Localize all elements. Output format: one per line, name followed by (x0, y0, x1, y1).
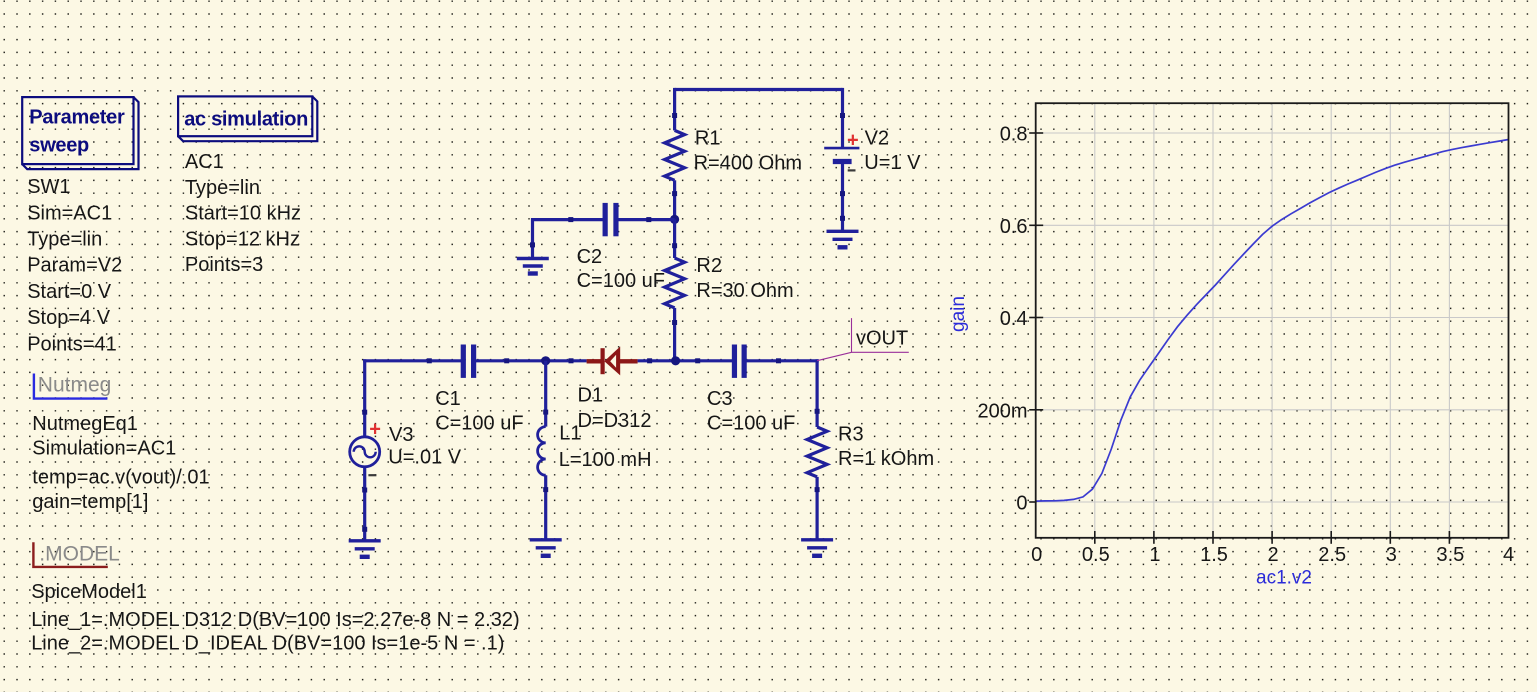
wire R2 bottom to main wire (673, 308, 676, 361)
SW1 properties (27, 176, 122, 355)
pin squares V2 (840, 113, 845, 118)
wire C3 right to R3 corner (744, 359, 819, 362)
svg-text:vOUT: vOUT (856, 328, 908, 350)
svg-text:D1: D1 (578, 384, 604, 406)
svg-text:V3: V3 (389, 424, 413, 446)
svg-text:Type=lin: Type=lin (185, 177, 260, 199)
svg-text:C=100 uF: C=100 uF (707, 413, 795, 435)
wire R2 top stub (673, 219, 676, 258)
svg-text:Points=3: Points=3 (185, 254, 263, 276)
svg-text:D=D312: D=D312 (578, 410, 652, 432)
svg-text:0.4: 0.4 (1000, 308, 1028, 330)
svg-text:1.5: 1.5 (1200, 544, 1228, 566)
svg-text:4: 4 (1503, 544, 1514, 566)
voltage source V3 ac (350, 418, 462, 475)
svg-text:V2: V2 (865, 127, 889, 149)
y axis ticks (1029, 133, 1043, 502)
svg-text:Param=V2: Param=V2 (27, 255, 122, 277)
pin squares C1 (427, 358, 432, 363)
resistor R2 (665, 258, 685, 308)
svg-text:ac1.v2: ac1.v2 (1256, 568, 1312, 589)
vOUT net label (817, 318, 909, 361)
svg-text:+: + (369, 418, 381, 440)
svg-text:U=1 V: U=1 V (864, 152, 921, 174)
svg-text:NutmegEq1: NutmegEq1 (32, 413, 138, 435)
resistor R1 (665, 130, 685, 180)
svg-text:C1: C1 (435, 388, 461, 410)
svg-text:sweep: sweep (29, 134, 89, 156)
pin squares C2 (568, 217, 573, 222)
svg-text:C3: C3 (707, 388, 733, 410)
svg-text:gain: gain (948, 296, 969, 332)
NutmegEq1 properties (32, 413, 209, 513)
gain curve (1036, 140, 1509, 502)
svg-text:Nutmeg: Nutmeg (38, 374, 112, 397)
svg-text:Simulation=AC1: Simulation=AC1 (32, 438, 176, 460)
svg-text:Stop=4 V: Stop=4 V (27, 307, 111, 329)
wire C2 right to node (618, 218, 674, 221)
diagram gridlines (1036, 103, 1509, 538)
wire bottom main V3 to C1 (363, 359, 463, 362)
svg-text:2: 2 (1268, 544, 1279, 566)
node junction R2/D1/C3 (671, 356, 680, 365)
wire L1 bottom (544, 475, 547, 540)
svg-text:Start=10 kHz: Start=10 kHz (185, 203, 301, 225)
y axis labels (977, 124, 1027, 515)
svg-text:2.5: 2.5 (1318, 544, 1346, 566)
svg-text:3: 3 (1386, 544, 1397, 566)
wire V2 bottom (841, 162, 844, 232)
pin squares C3 (695, 358, 700, 363)
svg-text:3.5: 3.5 (1436, 544, 1464, 566)
pin squares R1 (672, 113, 677, 118)
node junction R1/R2/C2 (670, 215, 679, 224)
svg-text:Type=lin: Type=lin (27, 229, 102, 251)
svg-text:Points=41: Points=41 (27, 333, 117, 355)
capacitor C1 (435, 345, 523, 435)
wire V3 top stub (363, 359, 366, 437)
svg-text:L1: L1 (559, 423, 581, 445)
svg-text:C=100 uF: C=100 uF (435, 413, 523, 435)
ground R3 (801, 540, 833, 556)
wire R3 bottom (815, 477, 818, 540)
wire C2 left + down to ground (533, 218, 603, 259)
svg-text:.MODEL: .MODEL (39, 543, 120, 566)
capacitor C2 (577, 203, 665, 292)
svg-text:Sim=AC1: Sim=AC1 (27, 202, 112, 224)
svg-text:ac simulation: ac simulation (184, 109, 308, 131)
node junction L1 on main wire (541, 356, 550, 365)
wire C1 right to L1 node and diode (474, 359, 587, 362)
ground V2 (827, 231, 859, 247)
svg-text:R=400 Ohm: R=400 Ohm (694, 153, 802, 175)
capacitor C3 (707, 345, 795, 435)
resistor R3 (807, 427, 827, 477)
x axis labels (1031, 544, 1514, 566)
svg-text:200m: 200m (977, 400, 1027, 422)
svg-text:R2: R2 (696, 255, 722, 277)
Nutmeg equation label (34, 374, 111, 399)
wire top horizontal R1 to V2 (675, 88, 843, 91)
svg-text:L=100 mH: L=100 mH (559, 449, 652, 471)
svg-text:C2: C2 (577, 246, 603, 268)
wire D1 right to C3 (638, 359, 733, 362)
svg-text:SpiceModel1: SpiceModel1 (31, 581, 147, 603)
pin squares R3 (815, 409, 820, 414)
svg-text:R3: R3 (838, 423, 864, 445)
svg-text:Line_1=.MODEL D312 D(BV=100 Is: Line_1=.MODEL D312 D(BV=100 Is=2.27e-8 N… (31, 609, 519, 631)
svg-text:Parameter: Parameter (29, 107, 125, 129)
svg-text:Stop=12 kHz: Stop=12 kHz (185, 228, 300, 250)
SpiceModel1 properties (31, 581, 519, 655)
svg-text:R=1 kOhm: R=1 kOhm (838, 448, 934, 470)
wire V3 bottom (363, 467, 366, 541)
svg-text:gain=temp[1]: gain=temp[1] (32, 491, 148, 513)
diagram frame (1036, 103, 1509, 538)
wire R1 bottom to node (673, 180, 676, 219)
svg-text:temp=ac.v(vout)/.01: temp=ac.v(vout)/.01 (32, 466, 209, 488)
wire L1 top stub (544, 361, 547, 427)
pin squares L1 (543, 410, 548, 415)
svg-text:C=100 uF: C=100 uF (577, 270, 665, 292)
svg-text:AC1: AC1 (185, 151, 224, 173)
.MODEL spice label (33, 542, 119, 567)
wire R1 top stub (673, 88, 676, 130)
svg-text:0.6: 0.6 (1000, 216, 1028, 238)
svg-text:U=.01 V: U=.01 V (388, 446, 461, 468)
svg-text:0: 0 (1031, 544, 1042, 566)
ac simulation AC1 box (178, 96, 317, 141)
svg-text:R1: R1 (695, 127, 721, 149)
x axis ticks (1095, 531, 1450, 544)
svg-text:+: + (847, 130, 859, 152)
pin squares D1 (569, 358, 574, 363)
svg-text:SW1: SW1 (27, 176, 70, 198)
wire V2 top stub (841, 88, 844, 148)
inductor L1 (538, 423, 652, 476)
svg-text:R=30 Ohm: R=30 Ohm (696, 280, 793, 302)
ground L1 (530, 540, 562, 556)
svg-text:1: 1 (1149, 544, 1160, 566)
svg-text:0: 0 (1016, 493, 1027, 515)
diode D1 (578, 347, 652, 432)
pin squares R2 (672, 243, 677, 248)
ground V3 (349, 541, 381, 557)
wire R3 top stub (815, 359, 818, 427)
svg-text:Start=0 V: Start=0 V (27, 281, 112, 303)
AC1 properties (185, 151, 301, 276)
voltage source V2 battery (824, 127, 921, 174)
svg-text:0.8: 0.8 (1000, 124, 1028, 146)
svg-text:Line_2=.MODEL D_IDEAL D(BV=100: Line_2=.MODEL D_IDEAL D(BV=100 Is=1e-5 N… (31, 633, 504, 655)
pin squares V3 (362, 410, 367, 415)
svg-text:0.5: 0.5 (1082, 544, 1110, 566)
parameter sweep SW1 box (22, 97, 138, 169)
ground C2 (517, 259, 549, 274)
